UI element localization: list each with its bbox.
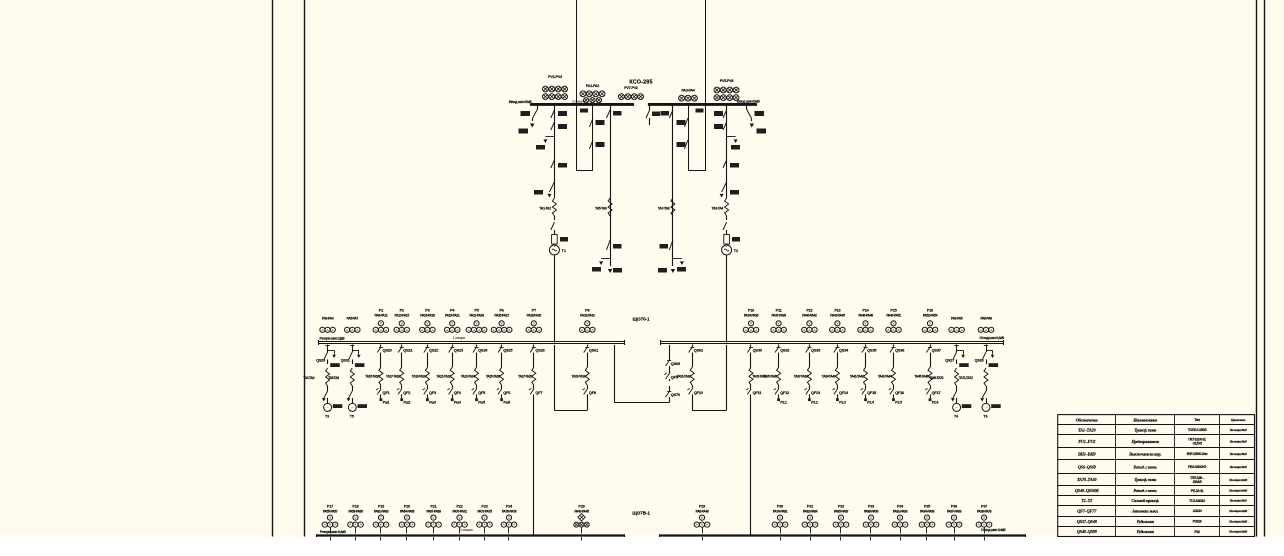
sheet right frame line inner bbox=[1256, 0, 1258, 537]
svg-text:Р30: Р30 bbox=[777, 504, 783, 508]
svg-text:А: А bbox=[924, 328, 926, 332]
svg-text:А: А bbox=[533, 328, 535, 332]
svg-text:150А/5: 150А/5 bbox=[1193, 480, 1202, 484]
svg-text:Р11: Р11 bbox=[776, 308, 782, 312]
svg-text:Р2.4: Р2.4 bbox=[867, 400, 874, 404]
svg-text:QS36: QS36 bbox=[895, 348, 905, 353]
incoming line wire L1 (from top edge) bbox=[576, 0, 578, 171]
svg-text:QS70: QS70 bbox=[671, 392, 680, 397]
switch QS7 bbox=[551, 222, 555, 230]
svg-text:1 секция: 1 секция bbox=[453, 336, 466, 340]
switch QS14 bbox=[723, 160, 727, 168]
svg-text:FU1–FU2: FU1–FU2 bbox=[1078, 439, 1096, 444]
svg-text:Р6: Р6 bbox=[499, 308, 503, 312]
svg-text:Р18: Р18 bbox=[352, 504, 358, 508]
svg-text:А: А bbox=[887, 328, 889, 332]
svg-text:На секции ВкВ: На секции ВкВ bbox=[1229, 499, 1247, 503]
svg-text:А: А bbox=[453, 523, 455, 527]
svg-text:А: А bbox=[894, 523, 896, 527]
svg-text:А: А bbox=[934, 328, 936, 332]
svg-text:QF12: QF12 bbox=[780, 390, 790, 395]
svg-text:Т1: Т1 bbox=[562, 249, 566, 253]
svg-text:А: А bbox=[483, 523, 485, 527]
svg-text:А: А bbox=[875, 523, 877, 527]
svg-text:Р15: Р15 bbox=[890, 308, 896, 312]
svg-text:Тип: Тип bbox=[1194, 418, 1200, 422]
svg-text:РА58-РА60: РА58-РА60 bbox=[348, 509, 363, 513]
svg-text:А: А bbox=[380, 523, 382, 527]
svg-text:ТА5-ТА6: ТА5-ТА6 bbox=[595, 207, 607, 211]
svg-text:Р32: Р32 bbox=[838, 504, 844, 508]
svg-text:РА43-РА45: РА43-РА45 bbox=[574, 509, 589, 513]
svg-text:Р3: Р3 bbox=[425, 308, 429, 312]
svg-text:А: А bbox=[427, 523, 429, 527]
svg-text:А: А bbox=[845, 523, 847, 527]
svg-text:ТА25-ТА26: ТА25-ТА26 bbox=[486, 375, 500, 379]
current transformer TA1-TA2 bbox=[552, 198, 556, 216]
svg-text:QF13: QF13 bbox=[811, 390, 821, 395]
svg-text:Р12: Р12 bbox=[806, 308, 812, 312]
disconnector QS3 bbox=[551, 122, 555, 130]
riser wire to lower switchboard section 1 bbox=[533, 396, 535, 535]
svg-text:Обозначение: Обозначение bbox=[1076, 417, 1098, 422]
svg-text:А: А bbox=[332, 328, 334, 332]
svg-text:А: А bbox=[581, 328, 583, 332]
svg-text:РА25-РА27: РА25-РА27 bbox=[494, 313, 509, 317]
svg-text:ТА19-ТА20: ТА19-ТА20 bbox=[412, 375, 426, 379]
svg-text:Р28: Р28 bbox=[578, 504, 584, 508]
svg-text:РА52-РА54: РА52-РА54 bbox=[923, 313, 938, 317]
svg-text:QS26: QS26 bbox=[535, 348, 545, 353]
svg-text:А: А bbox=[755, 328, 757, 332]
svg-text:А: А bbox=[783, 328, 785, 332]
svg-text:А: А bbox=[478, 328, 480, 332]
svg-text:QF11: QF11 bbox=[753, 390, 763, 395]
svg-text:КСО-285: КСО-285 bbox=[629, 80, 652, 86]
svg-text:Автомат. выкл.: Автомат. выкл. bbox=[1131, 508, 1159, 513]
svg-text:А: А bbox=[401, 523, 403, 527]
svg-text:А: А bbox=[421, 328, 423, 332]
svg-text:Р5: Р5 bbox=[474, 308, 478, 312]
svg-text:А: А bbox=[538, 328, 540, 332]
svg-text:Р1: Р1 bbox=[379, 308, 383, 312]
switch QS16 bbox=[723, 222, 727, 230]
svg-text:А: А bbox=[745, 328, 747, 332]
svg-text:А: А bbox=[334, 523, 336, 527]
svg-text:ТСЗ-630/10: ТСЗ-630/10 bbox=[1189, 499, 1205, 503]
svg-text:Рш6: Рш6 bbox=[503, 400, 510, 404]
svg-text:На секции ВкВ: На секции ВкВ bbox=[1229, 465, 1247, 469]
transformer T1 input loop (bus drop) bbox=[554, 345, 556, 411]
svg-text:QF8: QF8 bbox=[589, 390, 597, 395]
svg-text:А: А bbox=[458, 523, 460, 527]
svg-text:А: А bbox=[835, 523, 837, 527]
svg-text:А: А bbox=[898, 328, 900, 332]
svg-text:А: А bbox=[508, 523, 510, 527]
svg-text:QS49–QS99: QS49–QS99 bbox=[1077, 529, 1098, 534]
current transformer TA3-TA4 bbox=[725, 198, 729, 216]
svg-text:А: А bbox=[503, 328, 505, 332]
svg-text:А: А bbox=[354, 523, 356, 527]
svg-text:А: А bbox=[831, 328, 833, 332]
feeder end arrow 2 bbox=[672, 258, 674, 266]
svg-text:Р21: Р21 bbox=[430, 504, 436, 508]
svg-text:ТОЛК-6 150/5: ТОЛК-6 150/5 bbox=[1188, 428, 1207, 432]
svg-text:ЩО70-1: ЩО70-1 bbox=[633, 317, 650, 322]
svg-text:А: А bbox=[750, 328, 752, 332]
svg-text:А: А bbox=[380, 328, 382, 332]
svg-text:ВН1–ВН9: ВН1–ВН9 bbox=[1077, 451, 1097, 456]
svg-text:Р2.5: Р2.5 bbox=[895, 400, 902, 404]
svg-text:А: А bbox=[980, 328, 982, 332]
svg-text:QF16: QF16 bbox=[895, 390, 905, 395]
svg-text:А: А bbox=[591, 328, 593, 332]
svg-text:ТА43-ТА44: ТА43-ТА44 bbox=[878, 375, 892, 379]
svg-text:Рш3: Рш3 bbox=[429, 400, 436, 404]
svg-text:На секции 0,4кВ: На секции 0,4кВ bbox=[1228, 478, 1247, 482]
svg-text:QS37–QS48: QS37–QS48 bbox=[1077, 519, 1098, 524]
svg-text:А: А bbox=[438, 523, 440, 527]
6kV bus section 2 bbox=[648, 103, 756, 106]
svg-text:РА3-РА5: РА3-РА5 bbox=[951, 317, 963, 321]
svg-text:ВНР-10/400-10зп: ВНР-10/400-10зп bbox=[1187, 452, 1208, 456]
svg-text:Р22: Р22 bbox=[456, 504, 462, 508]
power transformer T1 bbox=[549, 245, 559, 255]
svg-text:А: А bbox=[814, 328, 816, 332]
svg-text:ТА69-ТА70: ТА69-ТА70 bbox=[929, 376, 943, 380]
svg-text:А: А bbox=[493, 328, 495, 332]
svg-text:Примечание: Примечание bbox=[1230, 418, 1246, 422]
svg-text:QS37: QS37 bbox=[932, 348, 941, 353]
svg-text:А: А bbox=[375, 523, 377, 527]
switch with arrow to left bbox=[549, 182, 554, 192]
svg-text:Резерв шин 0,4кВ: Резерв шин 0,4кВ bbox=[320, 530, 346, 534]
svg-text:QF14: QF14 bbox=[839, 390, 849, 395]
svg-text:РА64-РА66: РА64-РА66 bbox=[400, 509, 415, 513]
svg-text:РА82-РА84: РА82-РА84 bbox=[803, 509, 818, 513]
feeder stub on bus 2 left bbox=[649, 105, 651, 110]
svg-text:А: А bbox=[356, 328, 358, 332]
svg-text:РV5-РV8: РV5-РV8 bbox=[720, 79, 734, 83]
svg-text:Р35: Р35 bbox=[924, 504, 930, 508]
svg-text:QS49–QS50М: QS49–QS50М bbox=[1075, 488, 1099, 493]
svg-text:QF2: QF2 bbox=[403, 390, 411, 395]
fuse FU2 bbox=[724, 235, 730, 245]
svg-text:Р8: Р8 bbox=[585, 308, 589, 312]
svg-text:РА88-РА90: РА88-РА90 bbox=[864, 509, 879, 513]
wire T2 to switchboard bus bbox=[726, 255, 728, 343]
svg-text:РА31-РА33: РА31-РА33 bbox=[580, 313, 595, 317]
svg-text:А: А bbox=[327, 328, 329, 332]
svg-text:А: А bbox=[432, 328, 434, 332]
svg-text:Рш2: Рш2 bbox=[404, 400, 411, 404]
svg-text:Р2.3: Р2.3 bbox=[839, 400, 846, 404]
svg-text:QF7–QF77: QF7–QF77 bbox=[1077, 508, 1097, 513]
svg-text:Р7: Р7 bbox=[532, 308, 536, 312]
fork tap with arrow right bbox=[673, 258, 682, 260]
svg-text:Т1–Т2: Т1–Т2 bbox=[1081, 498, 1093, 503]
svg-text:QS34: QS34 bbox=[839, 348, 849, 353]
0.4kV bus section 2 (SHCHO70-1 right) bbox=[661, 341, 1004, 343]
svg-text:РА5-РА7: РА5-РА7 bbox=[347, 317, 359, 321]
svg-text:Р2.6: Р2.6 bbox=[932, 400, 939, 404]
feeder label box right 2 bbox=[757, 129, 767, 134]
svg-text:Предохранители: Предохранители bbox=[1131, 439, 1160, 444]
svg-text:А: А bbox=[503, 523, 505, 527]
svg-text:А: А bbox=[864, 328, 866, 332]
svg-text:ТА1–ТА20: ТА1–ТА20 bbox=[1078, 427, 1096, 432]
svg-text:QS24: QS24 bbox=[478, 348, 488, 353]
svg-text:А: А bbox=[483, 328, 485, 332]
svg-text:РА46-РА48: РА46-РА48 bbox=[858, 313, 873, 317]
svg-text:Резерв шин ЩкВ: Резерв шин ЩкВ bbox=[320, 336, 346, 340]
svg-text:ТА3-ТА4: ТА3-ТА4 bbox=[712, 207, 724, 211]
svg-text:А: А bbox=[351, 328, 353, 332]
svg-text:РА3-РА4: РА3-РА4 bbox=[322, 317, 334, 321]
svg-text:А: А bbox=[346, 328, 348, 332]
svg-text:ТА41-ТА42: ТА41-ТА42 bbox=[850, 375, 864, 379]
svg-text:ТА71-ТА72: ТА71-ТА72 bbox=[959, 376, 973, 380]
svg-text:РА37-РА39: РА37-РА39 bbox=[771, 313, 786, 317]
tap with down arrow bbox=[545, 136, 554, 138]
svg-text:А: А bbox=[892, 328, 894, 332]
svg-text:А: А bbox=[513, 523, 515, 527]
svg-text:Т3: Т3 bbox=[325, 415, 329, 419]
svg-text:ТА27-ТА28: ТА27-ТА28 bbox=[518, 375, 532, 379]
lower 0.4kV bus section 1 (SHCHO7V-1 left) bbox=[317, 534, 624, 536]
component table frame bbox=[1058, 415, 1255, 537]
wire T1 to switchboard bus bbox=[554, 255, 556, 343]
feeder end arrow bbox=[610, 258, 612, 266]
svg-text:А: А bbox=[360, 523, 362, 527]
svg-text:ТА39-ТА40: ТА39-ТА40 bbox=[822, 375, 836, 379]
svg-text:А: А bbox=[865, 523, 867, 527]
power transformer T2 bbox=[722, 245, 732, 255]
svg-text:А: А bbox=[426, 328, 428, 332]
svg-text:ТА45-ТА46: ТА45-ТА46 bbox=[914, 375, 928, 379]
svg-text:РА97-РА99: РА97-РА99 bbox=[947, 509, 962, 513]
svg-text:А: А bbox=[456, 328, 458, 332]
svg-text:А: А bbox=[931, 523, 933, 527]
svg-text:QS30: QS30 bbox=[753, 348, 762, 353]
svg-text:А: А bbox=[842, 328, 844, 332]
svg-text:А: А bbox=[804, 523, 806, 527]
svg-text:Р37: Р37 bbox=[981, 504, 987, 508]
svg-text:А: А bbox=[983, 523, 985, 527]
svg-text:На секции ВкВ: На секции ВкВ bbox=[1229, 452, 1247, 456]
svg-text:ТА17-ТА18: ТА17-ТА18 bbox=[386, 375, 400, 379]
svg-text:Т5: Т5 bbox=[350, 415, 354, 419]
svg-text:А: А bbox=[586, 328, 588, 332]
switch QS4 in cell bbox=[589, 140, 593, 149]
svg-text:Рш1: Рш1 bbox=[383, 400, 390, 404]
svg-text:Силовой трансф.: Силовой трансф. bbox=[1131, 498, 1159, 503]
svg-text:А: А bbox=[784, 523, 786, 527]
svg-text:Р20: Р20 bbox=[404, 504, 410, 508]
svg-text:А: А bbox=[451, 328, 453, 332]
svg-text:На секции 0,4кВ: На секции 0,4кВ bbox=[1228, 489, 1247, 493]
svg-text:Р13: Р13 bbox=[834, 308, 840, 312]
svg-text:А: А bbox=[385, 523, 387, 527]
svg-text:А: А bbox=[926, 523, 928, 527]
svg-text:А: А bbox=[836, 328, 838, 332]
svg-text:А: А bbox=[464, 523, 466, 527]
svg-text:На секции 0,4кВ: На секции 0,4кВ bbox=[1228, 509, 1247, 513]
svg-text:QS35: QS35 bbox=[867, 348, 877, 353]
svg-text:РА85-РА87: РА85-РА87 bbox=[834, 509, 849, 513]
svg-text:РЕ-19-41: РЕ-19-41 bbox=[1191, 489, 1204, 493]
svg-text:QS20: QS20 bbox=[383, 348, 392, 353]
svg-text:А: А bbox=[375, 328, 377, 332]
svg-text:А: А bbox=[870, 523, 872, 527]
svg-text:РV7-РV2: РV7-РV2 bbox=[624, 86, 638, 90]
svg-text:А: А bbox=[948, 523, 950, 527]
svg-text:РV1-РV4: РV1-РV4 bbox=[548, 75, 563, 79]
current transformer TA7-TA8 bbox=[671, 198, 675, 216]
incoming compartment cell 2 (rectangle) bbox=[688, 105, 690, 171]
svg-text:Трансф. тока: Трансф. тока bbox=[1134, 427, 1156, 432]
svg-text:1 секция: 1 секция bbox=[460, 528, 473, 532]
svg-text:А: А bbox=[899, 523, 901, 527]
svg-text:РА28-РА30: РА28-РА30 bbox=[527, 313, 542, 317]
disconnector QS2b bbox=[723, 110, 727, 118]
svg-text:РА19-РА21: РА19-РА21 bbox=[445, 313, 460, 317]
svg-text:Р32: Р32 bbox=[1194, 530, 1200, 534]
svg-text:ТА35-ТА36: ТА35-ТА36 bbox=[763, 375, 777, 379]
svg-text:А: А bbox=[988, 523, 990, 527]
fork tap with arrow left bbox=[601, 258, 610, 260]
svg-text:А: А bbox=[329, 523, 331, 527]
svg-text:А: А bbox=[473, 328, 475, 332]
sheet left frame line outer bbox=[272, 0, 274, 537]
svg-text:А: А bbox=[778, 328, 780, 332]
svg-text:Р2.2: Р2.2 bbox=[811, 400, 818, 404]
svg-text:ТА5-ТА6: ТА5-ТА6 bbox=[328, 376, 339, 380]
outgoing feeder with arrow (far left of bus 1) bbox=[537, 105, 539, 109]
svg-text:А: А bbox=[840, 523, 842, 527]
incoming line wire L2 (from top edge) bbox=[705, 0, 707, 171]
switch with arrow 2 bbox=[722, 182, 727, 192]
svg-text:Т2: Т2 bbox=[734, 249, 738, 253]
current transformer TA5-TA6 bbox=[608, 198, 612, 216]
svg-text:Трансф. тока: Трансф. тока bbox=[1134, 477, 1156, 482]
svg-text:QF7: QF7 bbox=[535, 390, 542, 395]
svg-text:А: А bbox=[772, 328, 774, 332]
svg-text:А: А bbox=[406, 523, 408, 527]
svg-text:РА40-РА42: РА40-РА42 bbox=[802, 313, 817, 317]
svg-text:А: А bbox=[478, 523, 480, 527]
svg-text:А: А bbox=[498, 328, 500, 332]
fuse FU1 bbox=[552, 235, 558, 245]
svg-text:А: А bbox=[774, 523, 776, 527]
svg-text:Р36: Р36 bbox=[951, 504, 957, 508]
svg-text:Р16: Р16 bbox=[927, 308, 933, 312]
svg-text:А: А bbox=[349, 523, 351, 527]
sheet right frame line outer bbox=[1264, 0, 1266, 537]
svg-text:QS69: QS69 bbox=[671, 361, 681, 366]
svg-text:Р2.1: Р2.1 bbox=[780, 400, 787, 404]
svg-text:А: А bbox=[489, 523, 491, 527]
cell label box bbox=[580, 109, 588, 113]
svg-text:А: А bbox=[446, 328, 448, 332]
svg-text:QS61: QS61 bbox=[589, 348, 599, 353]
svg-text:Выключатели нагр.: Выключатели нагр. bbox=[1128, 451, 1161, 456]
svg-text:QS21: QS21 bbox=[403, 348, 413, 353]
svg-text:РА67-РА69: РА67-РА69 bbox=[426, 509, 441, 513]
svg-text:QF17: QF17 bbox=[932, 390, 941, 395]
svg-text:ТА23-ТА24: ТА23-ТА24 bbox=[461, 375, 475, 379]
transformer T2 feeder column bbox=[726, 105, 728, 198]
svg-text:РА3-РА4: РА3-РА4 bbox=[681, 89, 695, 93]
svg-text:А: А bbox=[929, 328, 931, 332]
feeder label box ТУ1 bbox=[521, 111, 531, 116]
feeder with CT column TA5-TA6 bbox=[610, 105, 612, 258]
svg-text:РА8-РА48: РА8-РА48 bbox=[696, 509, 709, 513]
svg-text:Рубильник: Рубильник bbox=[1137, 529, 1155, 534]
svg-text:Р19: Р19 bbox=[378, 504, 384, 508]
svg-text:QF5: QF5 bbox=[478, 390, 486, 395]
svg-text:РА38-РА78: РА38-РА78 bbox=[977, 509, 992, 513]
switch QS12 bbox=[669, 240, 673, 250]
svg-text:QF4: QF4 bbox=[454, 390, 462, 395]
svg-text:Т4: Т4 bbox=[954, 415, 958, 419]
switch QS8 in cell 2 bbox=[684, 140, 688, 149]
bus tie loop from section 1 bbox=[614, 345, 616, 403]
svg-text:QS32: QS32 bbox=[780, 348, 790, 353]
svg-text:А: А bbox=[921, 523, 923, 527]
disconnector QS1 bbox=[551, 110, 555, 118]
svg-text:А: А bbox=[508, 328, 510, 332]
svg-text:А: А bbox=[701, 523, 703, 527]
svg-text:Ввод шин ВкВ: Ввод шин ВкВ bbox=[737, 100, 760, 104]
svg-text:А: А bbox=[406, 328, 408, 332]
switch QS2 in cell bbox=[589, 118, 593, 127]
svg-text:QS6–QS69: QS6–QS69 bbox=[1078, 464, 1097, 469]
svg-text:Ввод шин ВкВ: Ввод шин ВкВ bbox=[509, 100, 532, 104]
disconnector QS9 bbox=[607, 110, 611, 118]
svg-text:ТА7-ТА8: ТА7-ТА8 bbox=[658, 207, 670, 211]
svg-text:На секции ВкВ: На секции ВкВ bbox=[1229, 440, 1247, 444]
svg-text:РА43-РА45: РА43-РА45 bbox=[830, 313, 845, 317]
svg-text:ТА3-ТА4: ТА3-ТА4 bbox=[303, 376, 314, 380]
svg-text:QF15: QF15 bbox=[867, 390, 877, 395]
svg-text:QF10: QF10 bbox=[694, 390, 703, 395]
transformer T1 feeder column bbox=[554, 105, 556, 198]
svg-text:РА91-РА93: РА91-РА93 bbox=[893, 509, 908, 513]
svg-text:QF6: QF6 bbox=[503, 390, 511, 395]
bus tie riser QS69 QF9 QS70 bbox=[669, 400, 671, 403]
svg-text:А: А bbox=[779, 523, 781, 527]
svg-text:А: А bbox=[324, 523, 326, 527]
switch QS5 bbox=[551, 160, 555, 168]
svg-text:QS25: QS25 bbox=[503, 348, 513, 353]
svg-text:Р17: Р17 bbox=[327, 504, 333, 508]
lower 0.4kV bus section 2 (SHCHO7V-1 right) bbox=[660, 534, 1026, 536]
tap with down arrow right bbox=[727, 136, 736, 138]
svg-text:А: А bbox=[401, 328, 403, 332]
svg-text:РВЗ-6/400УЗ: РВЗ-6/400УЗ bbox=[1188, 465, 1207, 469]
svg-text:Разъед. с зазем.: Разъед. с зазем. bbox=[1134, 464, 1158, 469]
svg-text:-31,5УЗ: -31,5УЗ bbox=[1192, 442, 1202, 446]
sheet left frame line inner bbox=[304, 0, 306, 537]
svg-text:А: А bbox=[321, 328, 323, 332]
svg-text:А: А bbox=[961, 328, 963, 332]
svg-text:РА22-РА24: РА22-РА24 bbox=[469, 313, 484, 317]
svg-text:РА49-РА51: РА49-РА51 bbox=[886, 313, 901, 317]
svg-text:На секции 0,4кВ: На секции 0,4кВ bbox=[1228, 530, 1247, 534]
svg-text:ТА21-ТА22: ТА21-ТА22 bbox=[437, 375, 451, 379]
svg-text:Т6: Т6 bbox=[983, 415, 987, 419]
